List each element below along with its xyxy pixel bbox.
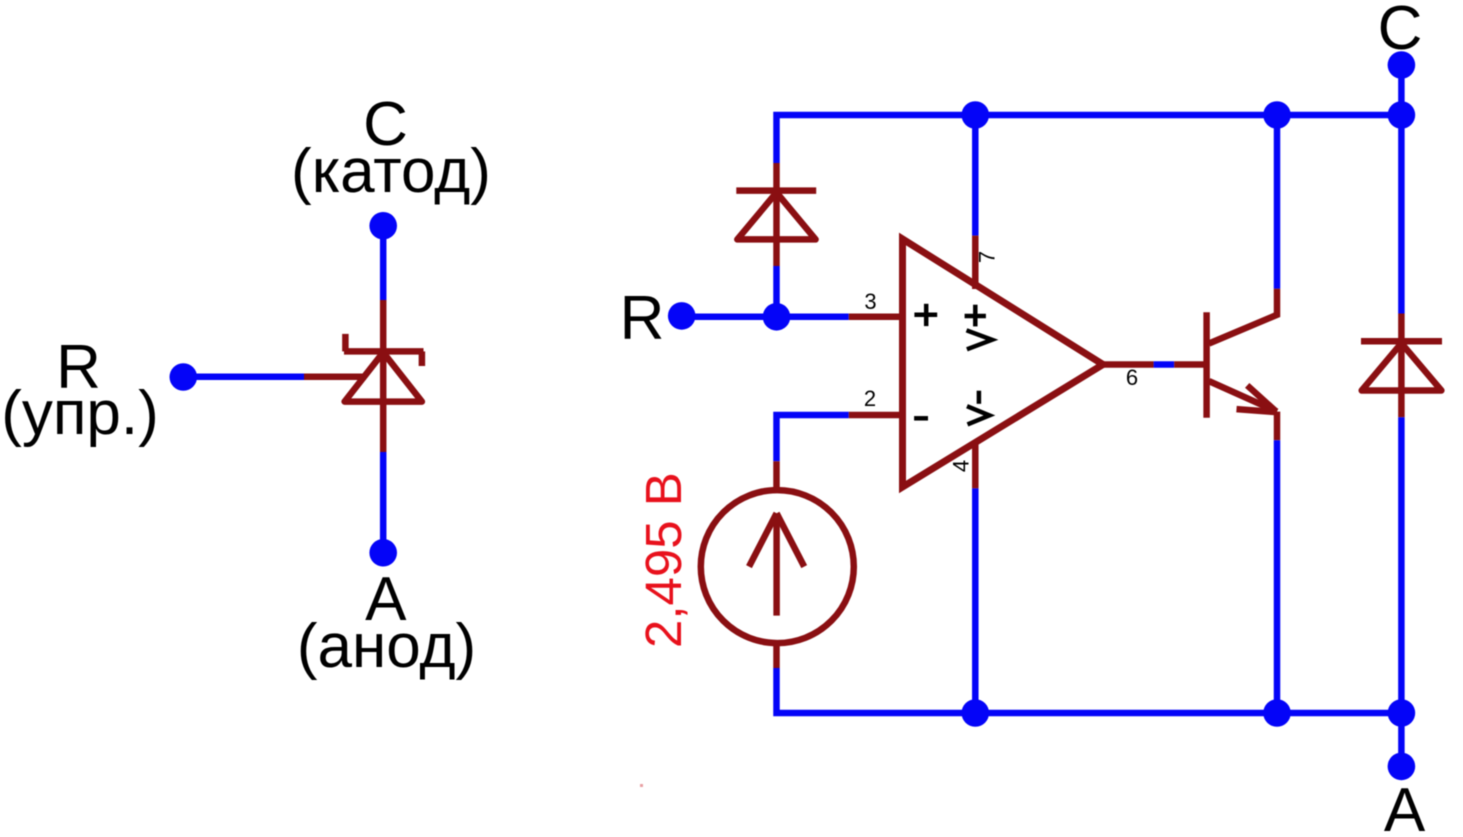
TL431 VD cathode/anode center lead: [380, 300, 387, 452]
svg-text:6: 6: [1126, 365, 1138, 390]
diode VD1 triangle: [737, 193, 815, 240]
TL431 reference lead (dark red): [304, 374, 366, 381]
terminal dot R (left symbol): [170, 363, 198, 391]
junction dot bottom rail / pin 4: [962, 699, 990, 727]
op-amp label V- (rotated): [967, 391, 989, 425]
op-amp pin 6 output lead (dark red): [1101, 361, 1154, 368]
transistor VT1 collector: [1209, 289, 1277, 344]
op-amp label V+ (rotated): [965, 305, 992, 350]
svg-text:4: 4: [949, 460, 974, 472]
svg-text:2: 2: [864, 386, 876, 411]
wire: emitter to bottom rail (blue): [1274, 440, 1281, 713]
wire: collector to top rail (blue): [1274, 115, 1281, 289]
TL431 reference tick left: [342, 334, 349, 352]
wire: pin 4 to bottom rail (blue): [972, 488, 979, 713]
op-amp input + sign: [914, 304, 937, 326]
junction dot top rail / pin 7: [962, 101, 990, 129]
diode VD1 cathode/anode lead: [773, 163, 780, 266]
op-amp input - sign: [914, 416, 928, 421]
op-amp U1 triangle: [903, 239, 1104, 487]
terminal dot R: [668, 302, 696, 330]
svg-text:(катод): (катод): [291, 137, 491, 206]
wire: R terminal to op-amp pin 3 (blue): [682, 314, 849, 321]
diode VD2 cathode bar: [1361, 338, 1442, 345]
svg-text:2,495 В: 2,495 В: [635, 472, 692, 648]
wire: top rail down right diode column (blue): [1398, 115, 1405, 314]
svg-text:A: A: [1384, 776, 1426, 837]
svg-text:(анод): (анод): [297, 612, 476, 681]
current source G1 arrow: [749, 513, 804, 615]
terminal dot C (left symbol): [369, 212, 397, 240]
junction dot node R: [763, 303, 791, 331]
terminal dot C: [1388, 51, 1416, 79]
svg-text:7: 7: [975, 251, 1000, 263]
transistor VT1 base bar: [1203, 312, 1210, 417]
wire: R terminal (blue): [183, 374, 304, 381]
wire: C terminal down to top rail: [1398, 65, 1405, 115]
TL431 triangle: [345, 352, 422, 401]
current source G1 top lead (dark red): [773, 461, 780, 492]
op-amp U1 pin 3 lead (dark red): [849, 314, 903, 321]
svg-text:3: 3: [864, 289, 876, 314]
wire: output blue segment: [1154, 361, 1175, 368]
top rail wire: [777, 115, 1402, 163]
TL431 reference tick right: [419, 351, 426, 366]
wire: TL431 anode to A terminal: [380, 452, 387, 553]
svg-text:R: R: [620, 284, 665, 353]
wire: pin 2 branch from source column (blue): [777, 415, 849, 461]
transistor VT1 base lead (dark red): [1174, 361, 1204, 368]
junction dot bottom rail / anode column: [1388, 699, 1416, 727]
wire: C terminal to TL431 cathode: [380, 226, 387, 300]
terminal dot A: [1388, 753, 1416, 781]
bottom rail wire: [777, 668, 1402, 713]
wire: bottom rail to A terminal: [1398, 713, 1405, 766]
junction dot top rail / cathode column: [1388, 101, 1416, 129]
current source G1 circle: [701, 490, 854, 643]
wire: top rail to pin 7 (blue): [972, 115, 979, 236]
TL431 cathode bar: [344, 348, 424, 355]
junction dot bottom rail / emitter: [1263, 699, 1291, 727]
terminal dot A (left symbol): [369, 539, 397, 567]
op-amp pin 7 lead (dark red): [972, 236, 979, 289]
diode VD1 cathode bar: [736, 187, 816, 194]
transistor VT1 emitter with arrow: [1209, 381, 1277, 440]
wire: diode VD2 anode to bottom rail (blue): [1398, 417, 1405, 713]
svg-text:(упр.): (упр.): [1, 379, 159, 448]
diode VD2 triangle: [1362, 343, 1442, 390]
junction dot top rail / collector: [1263, 101, 1291, 129]
wire: diode VD1 anode down to node R: [773, 266, 780, 317]
current source G1 bottom lead (dark red): [773, 641, 780, 668]
stray red dot artifact: [640, 784, 643, 787]
op-amp pin 4 lead (dark red): [972, 441, 979, 488]
op-amp U1 pin 2 lead (dark red): [849, 412, 903, 419]
diode VD2 cathode/anode lead: [1398, 314, 1405, 418]
